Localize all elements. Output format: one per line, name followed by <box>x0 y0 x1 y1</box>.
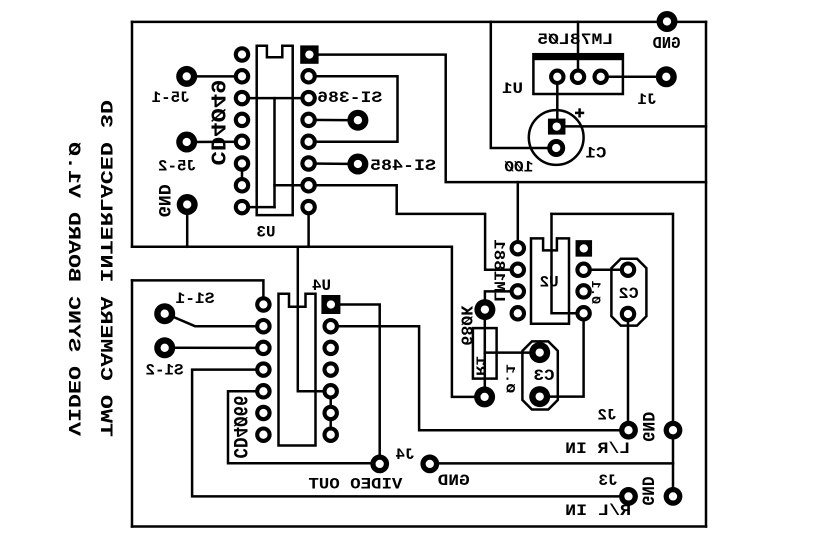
svg-text:L/R IN: L/R IN <box>565 440 630 458</box>
pad U1 output <box>549 69 566 86</box>
wire U1 middle pin to ground ring <box>577 22 580 77</box>
pad U3 right pin row 7 <box>300 177 317 194</box>
pad R1 top <box>474 299 495 320</box>
pad J5-1 <box>176 66 197 87</box>
pad GND top right <box>657 11 678 32</box>
wire U3 left pin8 stub <box>242 206 275 209</box>
capacitor C1 outline <box>529 110 584 165</box>
wire U1 to J1 <box>601 76 667 79</box>
svg-text:U2: U2 <box>540 274 559 292</box>
pad C3 bottom <box>529 386 550 407</box>
pad GND bottom <box>420 455 439 474</box>
svg-text:C3: C3 <box>534 367 555 385</box>
pad J3 <box>619 487 638 506</box>
svg-text:GND: GND <box>153 184 173 217</box>
pad GND right upper <box>664 421 683 440</box>
svg-text:U3: U3 <box>257 224 276 242</box>
pad U3 left pin row 2 <box>234 68 251 85</box>
pad U2 right pin row 3 <box>575 283 592 300</box>
pad U3 left pin row 7 <box>234 177 251 194</box>
pad U4 right pin row 2 <box>322 318 339 335</box>
voltage regulator U1 outline <box>533 53 623 94</box>
svg-text:LM1881: LM1881 <box>489 239 507 302</box>
wire R1 internal trace <box>484 310 487 397</box>
pad U2 left pin row 2 <box>510 262 527 279</box>
wire U3 to SI-386 pad <box>309 119 358 122</box>
pad U3 right pin row 3 <box>300 90 317 107</box>
svg-text:C1: C1 <box>585 145 606 163</box>
IC U3 CD4049 outline <box>257 46 293 215</box>
pad S1-1 <box>154 303 175 324</box>
svg-text:VIDEO SYNC BOARD V1.Ø: VIDEO SYNC BOARD V1.Ø <box>63 141 83 436</box>
svg-text:SI-485: SI-485 <box>370 157 436 175</box>
IC U4 CD4066 outline <box>279 294 316 446</box>
svg-text:LM78LØ5: LM78LØ5 <box>537 31 613 49</box>
svg-text:J4: J4 <box>396 446 415 464</box>
pad U4 left pin row 4 <box>255 361 272 378</box>
pad GND left <box>177 194 198 215</box>
svg-text:Ø.1: Ø.1 <box>588 281 602 305</box>
pad U1 ground <box>570 69 587 86</box>
pad U3 left pin row 4 <box>234 112 251 128</box>
pad C2 top <box>620 261 637 278</box>
wire U4 pin2 to J2 <box>331 326 629 430</box>
square pad U3 pin 16 <box>300 45 318 63</box>
wire ground bus through U4 notch to U4 pad <box>298 247 331 391</box>
pad U3 right pin row 2 <box>300 68 317 85</box>
pad C1 minus <box>547 139 565 157</box>
wire ground ring bottom edge <box>132 525 706 528</box>
pad U3 right pin row 4 <box>300 112 317 128</box>
wire ground ring left edge lower <box>131 280 134 526</box>
pad SI-386 <box>347 110 368 131</box>
pad U3 left pin row 1 <box>234 46 251 63</box>
pad U2 right pin row 2 <box>575 262 592 279</box>
wire U2 to C2 top <box>584 268 628 271</box>
pad S1-2 <box>154 337 175 358</box>
pad U2 left pin row 3 <box>510 283 527 300</box>
pad J4 video out <box>370 455 389 474</box>
wire through U2 notch to U2 pin <box>552 214 584 313</box>
svg-text:S1-1: S1-1 <box>176 290 215 308</box>
wire S1-2 to U4 <box>165 347 264 350</box>
svg-text:68ØK: 68ØK <box>456 305 475 346</box>
svg-text:S1-2: S1-2 <box>146 362 184 380</box>
square pad U2 pin 5 <box>576 240 593 257</box>
pad U1 input <box>592 69 609 86</box>
square pad U4 pin 8 <box>321 295 340 314</box>
svg-text:GND: GND <box>652 34 680 53</box>
svg-text:GND: GND <box>637 477 657 506</box>
svg-text:J1: J1 <box>638 91 657 109</box>
pad U4 right pin row 7 <box>322 426 339 443</box>
pad U4 right pin row 3 <box>322 340 339 357</box>
svg-text:SI-386: SI-386 <box>317 89 382 107</box>
pad U4 left pin row 3 <box>255 340 272 357</box>
wire U4 pin to J3 long trace <box>192 370 628 497</box>
svg-text:R/L IN: R/L IN <box>565 502 631 520</box>
pad U4 right pin row 5 <box>322 383 339 400</box>
svg-text:J3: J3 <box>599 472 618 490</box>
svg-text:1ØØ: 1ØØ <box>504 158 533 176</box>
wire U3 pin8 to ground bus <box>307 207 310 247</box>
pad U3 right pin row 8 <box>300 199 317 216</box>
wire ground ring top edge <box>132 21 706 24</box>
pad U3 right pin row 6 <box>300 155 317 172</box>
square pad C1 plus <box>548 119 566 135</box>
pad R1 bottom <box>474 386 495 407</box>
wire U4 pin to J4 video trace <box>228 391 380 463</box>
pad J5-2 <box>176 132 197 153</box>
pad U3 left pin row 5 <box>234 134 251 151</box>
pad U4 left pin row 5 <box>255 383 272 400</box>
wire GND pad branch <box>186 205 189 247</box>
svg-text:Ø.1: Ø.1 <box>503 364 517 393</box>
pad U2 left pin row 4 <box>510 305 527 322</box>
wire S1-1 to U4 <box>170 316 263 327</box>
svg-text:C2: C2 <box>619 285 639 303</box>
svg-text:U1: U1 <box>502 80 523 98</box>
pad J1 <box>656 66 677 87</box>
wire C1 plus to right edge <box>566 125 707 128</box>
svg-text:J5-2: J5-2 <box>158 157 196 175</box>
svg-text:CD4Ø49: CD4Ø49 <box>204 80 228 166</box>
wire U3 row2-row5 loop <box>309 76 398 142</box>
wire J5-1 to U3 <box>187 75 242 78</box>
wire ground bus mid horizontal to R1 bottom <box>132 247 485 397</box>
pad U3 right pin row 5 <box>300 134 317 151</box>
wire ground chain to right GND pads <box>552 214 674 497</box>
wire C3 top to R1 trace <box>485 351 540 354</box>
pad U4 right pin row 4 <box>322 361 339 378</box>
wire U2 pin to C3 bottom <box>540 313 584 396</box>
wire U3 pin7 to U2 pin2 <box>275 185 518 269</box>
wire U3 internal trace <box>273 98 276 207</box>
pad U4 left pin row 6 <box>255 405 272 422</box>
wire U3 square pad to right edge <box>318 55 706 183</box>
svg-text:J2: J2 <box>598 407 617 425</box>
pad U2 right pin row 4 <box>575 305 592 322</box>
svg-text:GND: GND <box>637 412 657 442</box>
IC U2 LM1881 outline <box>531 238 569 323</box>
wire U4 right pins 5-7 link <box>329 391 332 434</box>
pad U4 right pin row 6 <box>322 405 339 422</box>
pad C2 bottom <box>620 306 637 323</box>
pad U4 left pin row 2 <box>255 318 272 335</box>
wire C2 bottom to J2 <box>627 314 630 430</box>
svg-text:U4: U4 <box>312 277 331 295</box>
wire lower ring branch to U4 pin1 <box>132 280 263 304</box>
wire branch to U2 pin1 <box>517 182 520 248</box>
svg-text:J5-1: J5-1 <box>152 89 190 107</box>
svg-text:R1: R1 <box>471 356 487 376</box>
svg-text:VIDEO OUT: VIDEO OUT <box>308 475 402 493</box>
pad U4 left pin row 1 <box>255 296 272 313</box>
wire J5-2 to U3 <box>187 141 242 144</box>
wire U1 left pin to C1 plus <box>556 77 559 127</box>
wire U4 square pad to J4 <box>340 305 379 464</box>
wire R1 top to U2 pin3 <box>485 291 518 309</box>
pad GND right lower <box>664 487 683 506</box>
pad U2 left pin row 1 <box>510 240 527 257</box>
capacitor C3 outline <box>522 341 557 409</box>
wire ground ring right edge <box>705 22 708 527</box>
C1 plus polarity mark <box>575 108 584 117</box>
pad U3 left pin row 6 <box>234 155 251 172</box>
wire C1 minus to ground ring <box>491 22 556 148</box>
pad U4 left pin row 7 <box>255 426 272 443</box>
wire U3 to SI-485 pad <box>309 162 358 165</box>
wire GND pad to right ground chain <box>430 462 673 465</box>
svg-text:CD4Ø66: CD4Ø66 <box>227 396 250 459</box>
svg-text:GND: GND <box>438 472 470 490</box>
pad SI-485 <box>347 154 368 175</box>
capacitor C2 outline <box>611 259 646 326</box>
svg-text:TWO CAMERA INTERLACED 3D: TWO CAMERA INTERLACED 3D <box>95 100 115 437</box>
pad J2 <box>619 421 638 440</box>
wire U3 row3 crossing <box>242 97 309 100</box>
wire ground ring left edge upper <box>131 22 134 247</box>
pad U3 left pin row 8 <box>234 199 251 216</box>
wire U3 left pins 6-7 link <box>241 164 244 186</box>
resistor R1 outline <box>473 328 497 379</box>
pad C3 top <box>529 342 550 363</box>
pad U3 left pin row 3 <box>234 90 251 107</box>
